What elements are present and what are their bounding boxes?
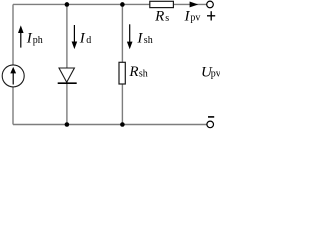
wire top right from Rs to terminal [174,3,207,5]
junction dot bottom Rsh node [120,122,125,127]
minus sign [208,116,214,118]
svg-text:sh: sh [144,35,153,46]
wire left vertical upper [12,4,14,65]
junction dot top Rsh node [120,2,125,7]
current source I_ph [2,65,24,87]
arrow Ish (down) [127,24,133,49]
arrowhead Ipv on top wire [190,2,199,8]
plus sign [207,11,215,20]
diode D [58,68,77,83]
svg-text:I: I [79,30,86,46]
svg-text:R: R [128,64,138,80]
arrow Iph (current direction, up) [18,25,24,47]
svg-text:sh: sh [139,69,148,80]
resistor Rs (horizontal box) [150,1,174,7]
svg-text:R: R [154,8,164,24]
svg-text:s: s [165,13,169,24]
svg-text:d: d [86,35,91,46]
wire bottom horizontal [13,124,207,126]
wire top horizontal [13,3,150,5]
junction dot top diode node [65,2,70,7]
svg-text:pv: pv [211,69,220,80]
terminal - (bottom right open circle) [207,121,214,128]
arrow Id (down) [72,25,78,49]
wire left vertical lower [12,87,14,125]
svg-text:I: I [136,30,143,46]
svg-text:ph: ph [33,35,43,46]
wire Rsh branch vertical [121,4,123,124]
junction dot bottom diode node [65,122,70,127]
wire diode branch vertical [66,4,68,124]
resistor Rsh (vertical box) [119,62,125,84]
terminal + (top right open circle) [207,1,214,8]
svg-text:pv: pv [190,13,200,24]
